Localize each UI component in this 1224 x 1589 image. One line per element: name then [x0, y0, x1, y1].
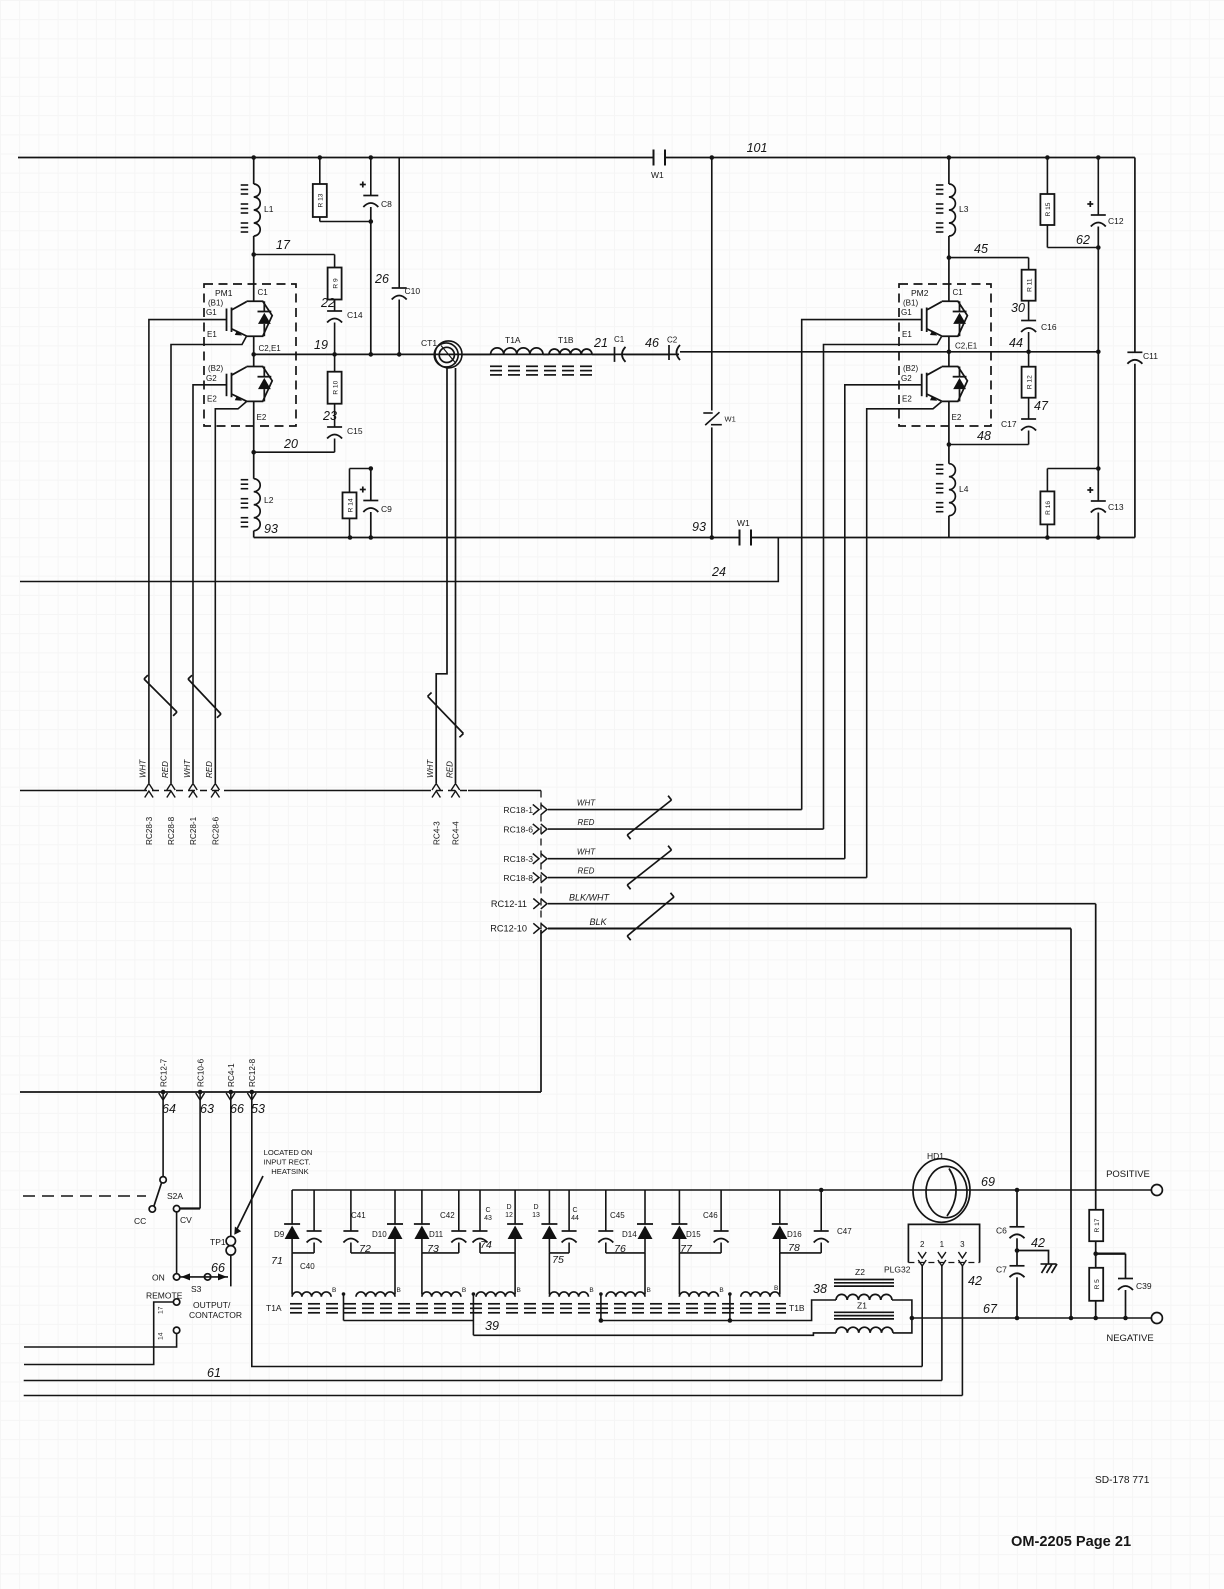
wire Z2/Z1 to negative bus — [892, 1300, 912, 1333]
terminal NEGATIVE — [1151, 1313, 1162, 1324]
svg-text:B: B — [517, 1287, 521, 1294]
svg-text:C2: C2 — [667, 336, 678, 345]
svg-text:C2,E1: C2,E1 — [259, 344, 282, 353]
svg-text:(B1): (B1) — [208, 299, 223, 308]
svg-text:R 13: R 13 — [318, 193, 325, 207]
IGBT PM2 lower — [922, 367, 968, 402]
svg-text:R 5: R 5 — [1094, 1279, 1101, 1290]
svg-text:C1: C1 — [258, 288, 269, 297]
wire RC12-10 vertical to negative bus — [1070, 929, 1072, 1319]
capacitor C43 — [479, 1190, 481, 1231]
svg-text:1: 1 — [940, 1240, 945, 1249]
transformer T1A secondary winding 1 — [292, 1292, 331, 1297]
svg-text:RC12-10: RC12-10 — [490, 924, 527, 934]
svg-text:53: 53 — [251, 1102, 265, 1116]
wire PM1 E2 pin — [253, 401, 255, 452]
svg-text:POSITIVE: POSITIVE — [1106, 1169, 1150, 1180]
transformer T1A primary — [462, 353, 491, 355]
svg-text:RED: RED — [161, 761, 170, 778]
svg-text:B: B — [589, 1287, 593, 1294]
capacitor C17 — [1028, 398, 1030, 419]
resistor R14 — [350, 468, 371, 470]
transformer T1B secondary winding 3 — [549, 1292, 588, 1297]
wire 67 negative bus — [912, 1317, 1152, 1319]
resistor R16 — [1046, 469, 1048, 492]
svg-text:WHT: WHT — [426, 759, 435, 778]
svg-text:RC4-3: RC4-3 — [432, 821, 441, 845]
wire RC12-7 to S2A — [162, 1092, 164, 1177]
twisted-lead slash G2/E2 pair — [188, 679, 221, 714]
wire top bus 101 (left of W1) — [18, 157, 654, 159]
resistor R11 — [1028, 258, 1030, 270]
svg-text:B: B — [397, 1287, 401, 1294]
svg-text:C39: C39 — [1136, 1281, 1152, 1291]
svg-text:72: 72 — [359, 1243, 371, 1255]
wire RC10-6 to CV — [199, 1092, 201, 1209]
capacitor C16 — [1028, 301, 1030, 321]
svg-text:C16: C16 — [1041, 322, 1057, 332]
svg-text:77: 77 — [680, 1243, 693, 1255]
capacitor C15 — [334, 404, 336, 427]
svg-text:L3: L3 — [959, 204, 969, 214]
svg-text:D14: D14 — [622, 1230, 637, 1239]
svg-text:E2: E2 — [902, 395, 912, 404]
wire R13/C8 junction — [320, 221, 371, 223]
wire PM2 G2 lead — [845, 385, 922, 859]
svg-text:R 17: R 17 — [1094, 1218, 1101, 1232]
junction dots — [251, 155, 256, 160]
svg-text:69: 69 — [981, 1175, 995, 1189]
capacitor C6 — [1016, 1190, 1018, 1227]
svg-text:RC18-3: RC18-3 — [503, 854, 533, 864]
svg-text:E1: E1 — [207, 330, 217, 339]
svg-text:D10: D10 — [372, 1230, 387, 1239]
svg-text:WHT: WHT — [577, 799, 596, 808]
svg-text:RED: RED — [445, 761, 454, 778]
capacitor C9 — [363, 500, 378, 502]
plug row RC28/RC4 carets — [145, 784, 153, 791]
svg-text:SD-178 771: SD-178 771 — [1095, 1475, 1150, 1486]
svg-text:20: 20 — [283, 437, 298, 451]
capacitor C45 — [605, 1190, 607, 1231]
capacitor C8 — [370, 158, 372, 196]
svg-text:RC18-8: RC18-8 — [503, 873, 533, 883]
inductor Z2 — [834, 1279, 894, 1281]
svg-text:71: 71 — [271, 1255, 283, 1267]
diode D12 — [514, 1190, 516, 1224]
svg-text:C: C — [572, 1207, 577, 1214]
capacitor C7 — [1016, 1251, 1018, 1266]
wire R17/R5/C39 junction — [1096, 1252, 1126, 1254]
svg-text:RC28-3: RC28-3 — [145, 816, 154, 845]
svg-text:R 15: R 15 — [1045, 202, 1052, 216]
svg-text:RC4-1: RC4-1 — [227, 1063, 236, 1087]
svg-text:OM-2205 Page 21: OM-2205 Page 21 — [1011, 1534, 1131, 1550]
svg-text:2: 2 — [920, 1240, 925, 1249]
wire 19 mid rail left — [254, 353, 679, 355]
svg-text:WHT: WHT — [139, 759, 148, 778]
wire 24 — [20, 538, 778, 582]
svg-text:C46: C46 — [703, 1211, 718, 1220]
svg-text:38: 38 — [813, 1282, 827, 1296]
svg-text:PM2: PM2 — [911, 288, 929, 298]
capacitor C44 — [568, 1190, 570, 1231]
svg-text:C13: C13 — [1108, 502, 1124, 512]
svg-text:66: 66 — [211, 1261, 225, 1275]
contact CV — [173, 1206, 179, 1212]
capacitor C40 — [313, 1190, 315, 1231]
svg-text:R 9: R 9 — [332, 278, 339, 289]
svg-text:W1: W1 — [725, 415, 736, 424]
node 46 / capacitor C2 series — [626, 353, 670, 355]
svg-text:E2: E2 — [207, 395, 217, 404]
svg-text:E2: E2 — [952, 413, 962, 422]
capacitor C41 — [350, 1190, 352, 1231]
svg-text:S3: S3 — [191, 1284, 202, 1294]
diode D10 — [394, 1190, 396, 1224]
diode D14 — [644, 1190, 646, 1224]
dashed wire to CC — [23, 1195, 146, 1197]
svg-text:14: 14 — [158, 1332, 165, 1340]
twisted-lead slash G1/E1 pair — [144, 679, 177, 712]
svg-text:RED: RED — [578, 818, 595, 827]
svg-text:HEATSINK: HEATSINK — [271, 1167, 308, 1176]
svg-text:G1: G1 — [901, 308, 912, 317]
svg-text:Z2: Z2 — [855, 1267, 865, 1277]
svg-text:W1: W1 — [651, 170, 664, 180]
svg-text:C11: C11 — [1143, 351, 1158, 361]
wire PM1 C1 pin — [253, 284, 255, 301]
svg-text:C40: C40 — [300, 1262, 315, 1271]
svg-text:RC18-1: RC18-1 — [503, 805, 533, 815]
inductor L2 — [253, 452, 255, 479]
wire 38 tap line T1B — [601, 1300, 836, 1321]
svg-text:CONTACTOR: CONTACTOR — [189, 1310, 242, 1320]
svg-text:RC28-8: RC28-8 — [167, 816, 176, 845]
wire D14/C45 junction — [606, 1252, 645, 1254]
wire RC12-8 to PLG32 pin2 — [252, 1092, 922, 1367]
svg-text:E1: E1 — [902, 330, 912, 339]
svg-text:44: 44 — [1009, 336, 1023, 350]
svg-text:13: 13 — [532, 1212, 540, 1219]
svg-text:C14: C14 — [347, 310, 363, 320]
wire PM1 G1 lead — [149, 320, 226, 783]
module PM1 dashed outline — [204, 284, 296, 426]
svg-text:43: 43 — [484, 1215, 492, 1222]
resistor R15 — [1046, 158, 1048, 195]
svg-text:26: 26 — [374, 272, 389, 286]
svg-text:D: D — [533, 1204, 538, 1211]
wire 17 — [254, 254, 335, 256]
twisted-lead slash RC18-3/RC18-8 — [627, 850, 671, 885]
capacitor C47 — [820, 1190, 822, 1231]
capacitor C12 — [1097, 158, 1099, 216]
capacitor C42 — [458, 1190, 460, 1231]
svg-text:47: 47 — [1034, 399, 1049, 413]
svg-text:C9: C9 — [381, 504, 392, 514]
capacitor C11 — [1134, 158, 1136, 353]
svg-text:RC12-11: RC12-11 — [491, 899, 527, 909]
svg-text:C47: C47 — [837, 1227, 852, 1236]
diode D15 — [678, 1190, 680, 1224]
svg-text:BLK: BLK — [589, 917, 607, 927]
wire mid rail to PM2 — [680, 351, 949, 353]
wire 62 junction R15/C12 — [1047, 247, 1098, 249]
transformer T1B primary — [543, 353, 549, 355]
wire PM2 E2 pin — [948, 401, 950, 444]
svg-text:RED: RED — [578, 867, 595, 876]
capacitor C39 — [1125, 1254, 1127, 1279]
svg-text:C45: C45 — [610, 1211, 625, 1220]
svg-text:61: 61 — [207, 1366, 221, 1380]
svg-text:78: 78 — [788, 1242, 800, 1254]
bulkhead link W1 on wire 93 — [739, 530, 741, 546]
svg-text:WHT: WHT — [183, 759, 192, 778]
capacitor C14 — [334, 300, 336, 312]
switch S2A — [160, 1177, 166, 1183]
svg-text:RC12-7: RC12-7 — [160, 1058, 169, 1087]
transformer core T1A/T1B — [490, 365, 502, 367]
resistor R17 — [1089, 1210, 1103, 1241]
svg-text:B: B — [647, 1287, 651, 1294]
svg-text:C7: C7 — [996, 1265, 1007, 1275]
svg-text:RC10-6: RC10-6 — [197, 1058, 206, 1087]
svg-text:L1: L1 — [264, 204, 274, 214]
IGBT PM2 upper — [922, 301, 968, 336]
svg-text:C12: C12 — [1108, 216, 1124, 226]
svg-text:G2: G2 — [206, 374, 217, 383]
wire PM1 E1 lead — [171, 336, 246, 783]
current transformer CT1 — [435, 341, 462, 368]
svg-text:CV: CV — [180, 1215, 192, 1225]
svg-text:22: 22 — [320, 296, 335, 310]
resistor R12 — [1028, 352, 1030, 367]
inductor L1 — [253, 158, 255, 185]
svg-text:C10: C10 — [405, 286, 421, 296]
svg-text:12: 12 — [505, 1212, 513, 1219]
capacitor C46 — [720, 1190, 722, 1231]
module PM2 dashed outline — [899, 284, 991, 426]
svg-text:R 12: R 12 — [1026, 375, 1033, 389]
svg-text:17: 17 — [276, 238, 291, 252]
IGBT PM1 lower — [227, 367, 273, 402]
transformer T1B secondary winding 4 — [679, 1292, 718, 1297]
wire D16/C47 junction — [780, 1252, 821, 1254]
resistor R10 — [334, 354, 336, 371]
twisted-lead slash RC12 pair — [627, 897, 674, 936]
twisted-lead slash RC18-1/RC18-6 — [627, 800, 671, 835]
svg-text:42: 42 — [1031, 1236, 1045, 1250]
diode D16 — [779, 1190, 781, 1224]
svg-text:RED: RED — [205, 761, 214, 778]
svg-text:R 14: R 14 — [347, 498, 354, 512]
wire 39 tap line T1A to Z1 — [344, 1320, 474, 1322]
svg-text:75: 75 — [552, 1254, 564, 1266]
test point TP1 — [226, 1236, 235, 1245]
svg-text:S2A: S2A — [167, 1191, 183, 1201]
svg-text:PM1: PM1 — [215, 288, 233, 298]
svg-text:HD1: HD1 — [927, 1151, 944, 1161]
svg-text:B: B — [462, 1287, 466, 1294]
bulkhead link W1 on top bus — [653, 150, 655, 166]
svg-text:64: 64 — [162, 1102, 176, 1116]
svg-text:L4: L4 — [959, 484, 969, 494]
svg-text:30: 30 — [1011, 301, 1025, 315]
svg-text:RC28-1: RC28-1 — [189, 816, 198, 845]
svg-text:74: 74 — [480, 1239, 492, 1251]
wire PM1 E2 kelvin lead — [215, 402, 246, 783]
svg-text:B: B — [774, 1285, 778, 1292]
svg-text:T1A: T1A — [505, 335, 521, 345]
wire 93 bottom bus (left) — [254, 537, 740, 539]
svg-text:C8: C8 — [381, 199, 392, 209]
svg-text:101: 101 — [747, 141, 768, 155]
wire D13/C44 junction — [549, 1252, 569, 1254]
svg-text:T1B: T1B — [558, 335, 574, 345]
resistor R5 — [1089, 1268, 1103, 1301]
svg-text:17: 17 — [158, 1306, 165, 1314]
svg-text:66: 66 — [230, 1102, 244, 1116]
svg-text:39: 39 — [485, 1319, 499, 1333]
svg-text:T1B: T1B — [789, 1303, 805, 1313]
wire junction R16/C13 — [1047, 468, 1098, 470]
svg-text:RC28-6: RC28-6 — [212, 816, 221, 845]
svg-text:R 16: R 16 — [1045, 501, 1052, 515]
wire PM1 C2-E1 pin — [253, 336, 255, 366]
inductor L4 — [948, 445, 950, 464]
inductor L3 — [948, 158, 950, 185]
svg-text:93: 93 — [264, 522, 278, 536]
svg-text:21: 21 — [593, 336, 608, 350]
svg-text:(B2): (B2) — [208, 364, 223, 373]
IGBT PM1 upper — [227, 301, 273, 336]
svg-text:(B2): (B2) — [903, 364, 918, 373]
wire RC12-11 vertical to R17 — [1095, 904, 1097, 1210]
svg-text:45: 45 — [974, 242, 988, 256]
wire D11/C42 junction — [422, 1252, 459, 1254]
inductor Z1 — [834, 1311, 894, 1313]
wire 45 — [949, 257, 1029, 259]
svg-text:C1: C1 — [614, 335, 625, 344]
svg-text:PLG32: PLG32 — [884, 1265, 911, 1275]
svg-text:D9: D9 — [274, 1230, 285, 1239]
svg-text:24: 24 — [711, 565, 726, 579]
svg-text:RC18-6: RC18-6 — [503, 824, 533, 834]
svg-text:R 10: R 10 — [332, 380, 339, 394]
wire PM2 C1 pin — [948, 284, 950, 301]
CT1 secondary wires — [436, 367, 447, 783]
svg-text:C1: C1 — [953, 288, 964, 297]
svg-text:44: 44 — [571, 1215, 579, 1222]
wire RC4-1 to TP1 — [230, 1092, 232, 1236]
svg-text:(B1): (B1) — [903, 299, 918, 308]
wire 48 — [949, 444, 1029, 446]
svg-text:D15: D15 — [686, 1230, 701, 1239]
svg-text:R 11: R 11 — [1026, 278, 1033, 292]
svg-text:LOCATED ON: LOCATED ON — [264, 1148, 313, 1157]
svg-text:93: 93 — [692, 520, 706, 534]
svg-text:E2: E2 — [257, 413, 267, 422]
svg-text:76: 76 — [614, 1243, 626, 1255]
svg-text:B: B — [332, 1287, 336, 1294]
svg-text:OUTPUT/: OUTPUT/ — [193, 1300, 231, 1310]
svg-text:63: 63 — [200, 1102, 214, 1116]
svg-text:C15: C15 — [347, 426, 363, 436]
svg-text:CC: CC — [134, 1216, 146, 1226]
svg-text:G2: G2 — [901, 374, 912, 383]
wire 93 bottom bus (right) — [751, 537, 1135, 539]
connector line RC28/RC4 — [20, 790, 140, 792]
svg-text:ON: ON — [152, 1273, 165, 1283]
svg-text:C42: C42 — [440, 1211, 455, 1220]
svg-text:C17: C17 — [1001, 419, 1017, 429]
wire PM2 G1 lead — [802, 320, 922, 810]
svg-text:19: 19 — [314, 338, 328, 352]
svg-text:D: D — [506, 1204, 511, 1211]
svg-text:G1: G1 — [206, 308, 217, 317]
wire D9/C40 junction — [292, 1252, 314, 1254]
svg-text:BLK/WHT: BLK/WHT — [569, 892, 611, 902]
heatsink note arrow — [237, 1176, 264, 1230]
transformer T1A secondary winding 2 — [422, 1292, 461, 1297]
varistor W1 vertical branch — [711, 158, 713, 411]
resistor R13 — [319, 158, 321, 185]
wire D10/C41 junction — [351, 1252, 395, 1254]
svg-text:D16: D16 — [787, 1230, 802, 1239]
wire CV to ON — [176, 1212, 178, 1274]
switch S3 — [173, 1274, 179, 1280]
svg-text:62: 62 — [1076, 233, 1090, 247]
svg-text:73: 73 — [427, 1243, 439, 1255]
svg-text:NEGATIVE: NEGATIVE — [1106, 1333, 1153, 1344]
wire 61 — [24, 1380, 942, 1382]
svg-text:48: 48 — [977, 429, 991, 443]
wire PM2 C2-E1 pin — [948, 336, 950, 366]
wire 20 — [254, 451, 335, 453]
wire PM2 E1 lead — [824, 336, 942, 829]
svg-text:RC4-4: RC4-4 — [452, 821, 461, 845]
svg-text:C2,E1: C2,E1 — [955, 342, 978, 351]
svg-text:3: 3 — [960, 1240, 965, 1249]
transformer core T1A/T1B secondary — [290, 1303, 302, 1305]
svg-text:INPUT RECT.: INPUT RECT. — [264, 1158, 311, 1167]
wire D12/C43 junction — [480, 1252, 515, 1254]
diode D11 — [421, 1190, 423, 1224]
svg-text:L2: L2 — [264, 495, 274, 505]
resistor R9 — [334, 255, 336, 268]
wire 44 — [949, 351, 1098, 353]
diode D9 — [291, 1190, 293, 1224]
svg-text:67: 67 — [983, 1302, 998, 1316]
twisted-lead slash CT1 pair — [428, 696, 464, 733]
wire D15/C46 junction — [679, 1252, 721, 1254]
hall device HD1 toroid — [913, 1159, 970, 1223]
svg-text:46: 46 — [645, 336, 659, 350]
wire top bus 101 (right of W1) — [665, 157, 1135, 159]
svg-text:WHT: WHT — [577, 848, 596, 857]
svg-text:42: 42 — [968, 1274, 982, 1288]
svg-text:RC12-8: RC12-8 — [248, 1058, 257, 1087]
diode D13 — [548, 1190, 550, 1224]
connector boundary vertical — [540, 791, 542, 931]
connector PLG32 box — [908, 1224, 979, 1262]
capacitor C13 — [1097, 352, 1099, 501]
terminal 14 — [173, 1327, 179, 1333]
svg-text:C: C — [485, 1207, 490, 1214]
svg-text:C41: C41 — [351, 1211, 366, 1220]
wire to PLG32 pin3 — [24, 1395, 963, 1397]
svg-text:TP1: TP1 — [210, 1237, 226, 1247]
